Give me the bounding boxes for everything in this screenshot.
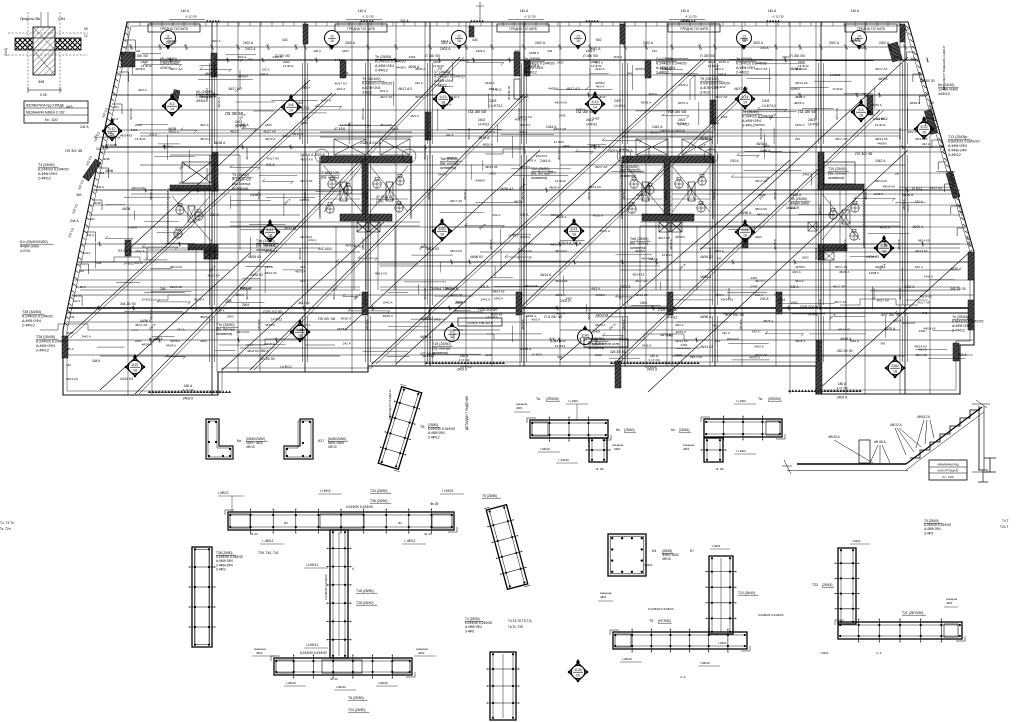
svg-text:242 А: 242 А [722,331,730,335]
svg-text:Л25 20/ 50: Л25 20/ 50 [263,309,283,314]
svg-text:46/14 КЗ: 46/14 КЗ [708,248,712,260]
svg-text:К:ВИЗ/20 б:ВИЗ/20: К:ВИЗ/20 б:ВИЗ/20 [952,320,983,324]
svg-text:48/26 А: 48/26 А [200,315,210,319]
svg-text:2403: 2403 [749,226,756,230]
svg-text:Т2п Т: Т2п Т [1000,525,1008,529]
svg-text:октивена): октивена) [531,176,547,180]
svg-text:2402 А: 2402 А [753,41,764,45]
svg-text:05: 05 [930,101,934,105]
svg-text:2403: 2403 [675,353,682,357]
svg-text:46/17 АЛ: 46/17 АЛ [263,129,275,133]
svg-text:І-4Ф/2: І-4Ф/2 [852,539,861,543]
svg-text:ЛЗ 30/ 45: ЛЗ 30/ 45 [855,151,873,156]
svg-text:2403: 2403 [265,123,272,127]
stair flight detail T8 (slanted) [375,384,456,472]
svg-text:4:2/19: 4:2/19 [20,249,30,253]
svg-text:46/3 А: 46/3 А [918,347,926,351]
svg-text:242 А: 242 А [66,347,74,351]
svg-text:46/3 А: 46/3 А [614,55,623,59]
svg-text:343: 343 [742,38,748,42]
svg-text:46/17 АЛ: 46/17 АЛ [917,301,929,305]
svg-text:343: 343 [910,57,916,61]
svg-text:14 Ф/12: 14 Ф/12 [555,339,566,343]
svg-text:46/3 А: 46/3 А [594,61,603,65]
svg-text:242 А: 242 А [265,265,273,269]
svg-text:443 3400: 443 3400 [318,247,332,251]
svg-text:Кп : 1/50: Кп : 1/50 [943,475,954,479]
svg-text:2403: 2403 [135,123,142,127]
svg-text:3-4Ф/1: 3-4Ф/1 [924,531,934,535]
svg-text:140 А: 140 А [768,9,777,13]
svg-text:.407 30/ 30: .407 30/ 30 [880,312,901,317]
beam size labels row 1 [225,109,820,129]
dimension tick row y47 [129,41,907,50]
svg-text:46/17 АЛ: 46/17 АЛ [300,179,312,183]
svg-text:44/58 К: 44/58 К [238,75,248,79]
svg-text:14 Ф/12: 14 Ф/12 [666,316,678,320]
svg-text:46/17 АЛ: 46/17 АЛ [690,355,702,359]
svg-text:І-4Ф/12: І-4Ф/12 [286,681,296,685]
beam size labels row 3 (30/45) [65,148,901,321]
svg-text:2403: 2403 [301,121,308,125]
svg-text:48/18 А: 48/18 А [669,238,673,250]
more vertical texts [129,88,902,300]
dimension texts above top edge [169,9,860,20]
svg-text:2406 А: 2406 А [760,149,771,153]
svg-text:4Ф/2: 4Ф/2 [683,447,690,451]
svg-text:Фк 28: Фк 28 [430,502,438,506]
svg-text:48/14 КЗ: 48/14 КЗ [520,249,532,253]
svg-text:46/17 АЛ: 46/17 АЛ [554,127,566,131]
svg-text:46/06 А: 46/06 А [902,193,914,197]
svg-text:І -4Ф/20: І -4Ф/20 [558,458,569,462]
svg-text:140 А: 140 А [520,9,529,13]
svg-text:44/58 К: 44/58 К [635,249,645,253]
svg-text:Л 30/ 50: Л 30/ 50 [425,53,441,58]
svg-text:(Вк. бетньа: (Вк. бетньа [216,328,235,332]
svg-text:44/58 К: 44/58 К [299,198,309,202]
svg-text:46/17 АЛ: 46/17 АЛ [335,81,347,85]
svg-text:4- 4-: 4- 4- [876,651,882,655]
svg-text:242 А: 242 А [302,85,310,89]
svg-text:48/26 А: 48/26 А [482,142,492,146]
svg-text:343: 343 [922,311,927,315]
svg-text:І +4Ф/2: І +4Ф/2 [320,489,331,493]
svg-text:Т:1823+/20: Т:1823+/20 [321,171,339,175]
svg-text:К4: К4 [652,549,656,553]
vertical beam detail bottom center [487,652,520,720]
svg-text:12450+0400: 12450+0400 [938,88,958,92]
svg-text:2403 А: 2403 А [440,47,451,51]
svg-text:2442 А: 2442 А [795,123,805,127]
svg-text:ГРЕДНА ТЛВ КАТВ: ГРЕДНА ТЛВ КАТВ [593,342,620,346]
svg-text:ЛЗ 30/ 50: ЛЗ 30/ 50 [118,249,132,253]
svg-text:Т21 (25/50): Т21 (25/50) [620,165,639,169]
tee beam detail K29 [671,397,785,471]
texts on diagonals [148,113,887,341]
svg-text:44/58 К: 44/58 К [790,87,800,91]
svg-text:ЛЗ 30/ 50: ЛЗ 30/ 50 [668,109,687,114]
svg-text:2403: 2403 [802,256,809,260]
svg-text:46/3 А: 46/3 А [415,95,424,99]
svg-text:14 Ф/12: 14 Ф/12 [334,58,345,62]
svg-text:6:24Ф/20 6:24Ф/20: 6:24Ф/20 6:24Ф/20 [300,651,327,655]
svg-text:2402 А: 2402 А [345,41,356,45]
L beam assembly T22/T21 (right) [644,539,965,655]
svg-text:46/38: 46/38 [122,207,130,211]
svg-text:Т16 (25/50): Т16 (25/50) [356,589,374,593]
svg-text:2442 А: 2442 А [481,298,491,302]
svg-text:48/18 А: 48/18 А [664,188,668,200]
svg-text:Т9: Т9 [649,619,653,623]
svg-text:44 44: 44 44 [250,532,258,536]
svg-text:44/54 КЗ: 44/54 КЗ [250,273,263,277]
diamond marker bottom-right block [885,355,906,378]
svg-text:К7: К7 [690,549,694,553]
svg-text:Т13 (25/05р: Т13 (25/05р [948,135,967,139]
svg-text:48/26 А: 48/26 А [341,317,351,321]
svg-text:48/17 АЛ: 48/17 АЛ [566,87,580,91]
svg-text:4Ф/14 КЗ: 4Ф/14 КЗ [200,95,213,99]
svg-text:5:24: 5:24 [742,228,749,232]
twin diagonal lines [70,57,884,394]
svg-text:14 Ф/12: 14 Ф/12 [586,123,598,127]
svg-text:46/70 А: 46/70 А [453,328,463,332]
svg-text:48/14 КЗ: 48/14 КЗ [375,272,387,276]
svg-text:46/3 А: 46/3 А [894,55,903,59]
svg-text:(25/45): (25/45) [679,428,689,432]
svg-text:48/14 КЗ: 48/14 КЗ [170,265,182,269]
svg-text:14 Ф/12: 14 Ф/12 [832,87,843,91]
svg-text:А:4Ф8+2Ф4: А:4Ф8+2Ф4 [952,324,971,328]
svg-text:344 А: 344 А [97,185,105,189]
svg-text:343: 343 [880,342,885,346]
svg-text:46/17 АЛ: 46/17 АЛ [240,286,252,290]
svg-text:2403: 2403 [593,329,600,333]
svg-text:46/14 КЗ: 46/14 КЗ [205,168,209,180]
svg-text:А:4Ф8+2Ф4: А:4Ф8+2Ф4 [22,319,41,323]
boxed labels lower plan [458,318,628,347]
svg-text:3-4Ф/1: 3-4Ф/1 [465,629,475,633]
svg-text:46/14 КЗ: 46/14 КЗ [129,108,133,120]
svg-text:4Ф/14 КЗ: 4Ф/14 КЗ [838,327,851,331]
svg-text:2-4Ф/12: 2-4Ф/12 [38,177,51,181]
svg-text:2403: 2403 [750,285,757,289]
svg-text:44/58 К: 44/58 К [675,235,685,239]
svg-text:Т26 (25/40): Т26 (25/40) [356,601,374,605]
svg-text:А 12 /30: А 12 /30 [685,15,697,19]
svg-text:3-4Ф/12: 3-4Ф/12 [742,124,755,128]
svg-text:46/17 АЛ: 46/17 АЛ [755,179,767,183]
svg-text:А:4Ф8+2Ф4: А:4Ф8+2Ф4 [434,79,453,83]
svg-text:4Ф/14 КЗ: 4Ф/14 КЗ [882,184,895,188]
svg-text:Т4 (25/50): Т4 (25/50) [38,163,55,167]
stair core U3 (center-right) walls and fixtures [617,139,718,290]
svg-text:46/70 А: 46/70 А [265,137,275,141]
svg-text:І +4Ф22: І +4Ф22 [442,489,454,493]
svg-text:46/50 А: 46/50 А [420,335,432,339]
svg-text:344 А: 344 А [96,147,105,151]
svg-text:5:13: 5:13 [592,100,599,104]
svg-text:44/54 КЗ: 44/54 КЗ [248,255,261,259]
small bracket symbol [978,458,996,482]
svg-text:140 А: 140 А [760,46,769,50]
svg-text:4Ф/14 КЗ: 4Ф/14 КЗ [422,354,434,358]
svg-text:4Ф/14 КЗ: 4Ф/14 КЗ [555,279,568,283]
svg-text:242: 242 [90,217,95,221]
svg-text:242 А: 242 А [446,133,454,137]
svg-text:46/3 А: 46/3 А [591,287,600,291]
big tee assembly web beam T16 [304,530,377,658]
svg-text:345 35/ 30: 345 35/ 30 [950,287,966,291]
svg-text:46/28 А: 46/28 А [214,141,226,145]
svg-text:4Ф/14 КЗ: 4Ф/14 КЗ [588,185,601,189]
tick pairs on beam lines [97,58,929,343]
svg-text:І-4Ф/12: І-4Ф/12 [540,447,550,451]
svg-text:2-4Ф/12: 2-4Ф/12 [375,69,388,73]
big tee assembly bottom flange beam T6/T24 [252,647,436,712]
svg-text:443: 443 [282,38,288,42]
svg-text:48/26 А: 48/26 А [168,130,178,134]
svg-text:46/3 А: 46/3 А [715,67,724,71]
svg-text:ГРЕДНА ТЈЛ КАТ8: ГРЕДНА ТЈЛ КАТ8 [509,27,537,31]
svg-text:4 17 /30: 4 17 /30 [837,386,848,390]
svg-text:Л 30/ 50: Л 30/ 50 [700,53,716,58]
svg-text:14: 14 [170,107,174,111]
horizontal beam segment pairs [80,133,960,290]
svg-text:Т5 (25/50): Т5 (25/50) [482,494,497,498]
svg-text:46/70 А: 46/70 А [520,165,530,169]
svg-text:І +4Ф/2: І +4Ф/2 [568,399,578,403]
svg-text:К27: К27 [318,439,324,443]
svg-text:Ф480+3400: Ф480+3400 [790,202,809,206]
svg-text:І-4Ф/2: І-4Ф/2 [718,641,727,645]
svg-text:КОНСТРУКЦИЈЕ: КОНСТРУКЦИЈЕ [938,469,959,473]
svg-text:44/58 К: 44/58 К [520,235,530,239]
scattered rebar annotations [66,19,967,381]
svg-text:2403: 2403 [755,235,762,239]
svg-text:46/14 КЗ: 46/14 КЗ [898,288,902,300]
svg-text:(Вк. бетньа: (Вк. бетньа [531,172,550,176]
svg-text:ЛЗ 30/ 50: ЛЗ 30/ 50 [468,109,487,114]
svg-text:140 А: 140 А [441,39,449,43]
svg-text:Л 30/ 50: Л 30/ 50 [583,53,599,58]
svg-text:46/70 А: 46/70 А [200,137,210,141]
svg-text:343 А: 343 А [400,19,409,23]
svg-text:48/14 КЗ: 48/14 КЗ [450,249,462,253]
svg-text:46/3 А: 46/3 А [893,319,901,323]
svg-text:2403: 2403 [782,55,789,59]
svg-text:46/00 А: 46/00 А [912,225,924,229]
svg-text:44/58 К: 44/58 К [523,241,533,245]
svg-text:443: 443 [652,49,657,53]
svg-text:46/17 АЛ: 46/17 АЛ [877,298,889,302]
svg-text:48/14 КЗ: 48/14 КЗ [755,207,767,211]
svg-text:46/17 АЛ: 46/17 АЛ [930,186,942,190]
svg-text:Та: Та [536,397,540,401]
svg-text:Кп (04/40): Кп (04/40) [938,83,954,87]
svg-text:46/14 КЗ: 46/14 КЗ [700,345,713,349]
svg-text:2-4Ф/12: 2-4Ф/12 [36,349,49,353]
svg-text:2442 А: 2442 А [924,274,933,278]
left slant edge steps [72,40,135,306]
svg-text:48/26 А: 48/26 А [549,185,559,189]
svg-text:1135: 1135 [574,668,582,672]
svg-text:2-4Ф/12: 2-4Ф/12 [736,71,749,75]
svg-text:5:13: 5:13 [440,95,447,99]
svg-text:(2П5/50): (2П5/50) [768,397,781,401]
svg-text:46/17 АЛ: 46/17 АЛ [595,165,607,169]
core room diagonals [172,166,860,240]
svg-text:14 Ф/12: 14 Ф/12 [271,318,283,322]
svg-text:Т21 (25ПЗ/50): Т21 (25ПЗ/50) [902,611,923,615]
svg-text:2403: 2403 [762,99,770,103]
svg-text:44/58 К: 44/58 К [595,293,605,297]
svg-text:343: 343 [79,269,84,273]
svg-text:Т4 Т: Т4 Т [1002,519,1009,523]
svg-text:48/14 КЗ: 48/14 КЗ [247,349,259,353]
svg-text:44Ф/10: 44Ф/10 [938,92,950,96]
svg-text:44/58 К: 44/58 К [755,123,765,127]
svg-text:4Ф/14 КЗ: 4Ф/14 КЗ [795,81,808,85]
svg-text:Т28 (3А/50): Т28 (3А/50) [22,310,41,314]
svg-text:4Ф/14 КЗ: 4Ф/14 КЗ [485,165,498,169]
svg-text:4Ф/2: 4Ф/2 [946,601,953,605]
svg-text:44/58 К: 44/58 К [166,344,176,348]
svg-text:48/26 А: 48/26 А [142,343,152,347]
svg-text:Кп: Кп [671,428,675,432]
svg-text:343: 343 [523,70,528,74]
svg-text:14 Ф/12: 14 Ф/12 [808,313,820,317]
svg-text:І-4Ф/12: І-4Ф/12 [378,681,388,685]
svg-text:2404: 2404 [640,301,647,305]
svg-text:А:4Ф8+2Ф4: А:4Ф8+2Ф4 [36,344,55,348]
svg-text:243 А: 243 А [760,297,769,301]
svg-text:443: 443 [135,49,140,53]
svg-text:48/18 А: 48/18 А [463,188,467,200]
svg-text:2402 А: 2402 А [535,41,546,45]
svg-text:242 А: 242 А [493,213,501,217]
svg-text:2403: 2403 [557,61,564,65]
svg-text:46/17 АЛ: 46/17 АЛ [398,87,412,91]
svg-text:А 12 /30: А 12 /30 [772,15,784,19]
svg-text:14 Ф7/12: 14 Ф7/12 [489,104,503,108]
svg-text:4Ф/14 КЗ: 4Ф/14 КЗ [915,137,928,141]
svg-text:46/3 А: 46/3 А [715,249,724,253]
svg-text:46/3 А: 46/3 А [520,95,529,99]
svg-text:А:4ПВ+204: А:4ПВ+204 [362,86,380,90]
svg-text:46/14 КЗ: 46/14 КЗ [814,248,818,260]
small dark bar near x469 top [469,26,474,37]
svg-text:46/14 КЗ: 46/14 КЗ [66,377,78,381]
svg-text:46/14 А: 46/14 А [540,273,552,277]
svg-text:46/14 КЗ: 46/14 КЗ [618,288,622,300]
svg-text:46/3 А: 46/3 А [596,85,604,89]
svg-text:А:4Ф8+2Ф4: А:4Ф8+2Ф4 [736,66,755,70]
svg-text:4Ф/14 КЗ: 4Ф/14 КЗ [120,133,132,137]
svg-text:343: 343 [715,339,720,343]
svg-text:46/70 А: 46/70 А [875,265,885,269]
svg-text:344: 344 [160,287,166,291]
svg-text:Кп: Кп [237,439,241,443]
svg-text:18: 18 [893,369,897,373]
svg-text:46/3 А: 46/3 А [532,318,540,322]
svg-text:46/70 А: 46/70 А [750,356,760,360]
svg-text:46/14 КЗ: 46/14 КЗ [298,248,302,260]
svg-text:46/3 А: 46/3 А [337,87,346,91]
svg-text:14 Ф/12: 14 Ф/12 [875,123,886,127]
svg-text:44/14 КЗ: 44/14 КЗ [120,377,133,381]
stair section elevation detail [782,400,990,480]
svg-text:2402 А: 2402 А [829,41,840,45]
svg-text:ГРЕДНА ТЈЛ КАТ8: ГРЕДНА ТЈЛ КАТ8 [347,27,375,31]
svg-text:МЕЗААНИН АЈВЕН С-192: МЕЗААНИН АЈВЕН С-192 [26,111,65,115]
svg-text:2402 К: 2402 К [837,396,847,400]
svg-text:(Вк. котньа: (Вк. котньа [828,172,846,176]
svg-text:2403: 2403 [478,118,485,122]
svg-text:2403: 2403 [409,55,416,59]
short dimension hook lines [94,57,965,359]
svg-text:44/58 К: 44/58 К [795,265,805,269]
svg-text:Та,Тк ,Т2б: Та,Тк ,Т2б [508,625,523,629]
svg-text:14 Ф/12: 14 Ф/12 [478,123,490,127]
svg-text:14 Ф/12: 14 Ф/12 [715,85,726,89]
svg-text:2442 А: 2442 А [383,301,393,305]
svg-text:2444 А: 2444 А [540,159,551,163]
svg-text:46/14 КЗ: 46/14 КЗ [245,148,249,160]
svg-text:2442 А: 2442 А [875,159,886,163]
svg-text:46/56 КЗ: 46/56 КЗ [470,255,483,259]
svg-text:344: 344 [108,131,113,135]
svg-text:2403: 2403 [342,49,349,53]
svg-text:343: 343 [712,324,717,328]
svg-text:14 Ф7/12: 14 Ф7/12 [762,104,776,108]
svg-text:13: 13 [576,34,580,38]
vertical beam double lines [210,63,908,362]
svg-text:4 17 /30: 4 17 /30 [459,358,470,362]
svg-text:48/14 КЗ: 48/14 КЗ [555,249,567,253]
svg-text:44/58 К: 44/58 К [127,226,137,230]
svg-text:46/17 АЛ: 46/17 АЛ [450,199,462,203]
svg-text:46/70 А: 46/70 А [295,269,305,273]
svg-text:363: 363 [99,171,104,175]
rotated detail captions [465,45,946,430]
svg-text:48/26 А: 48/26 А [910,101,920,105]
svg-text:6:24Ф/20 6:24Ф/20: 6:24Ф/20 6:24Ф/20 [648,607,674,611]
annotation scatter 3 [131,58,930,360]
svg-text:46/3 А: 46/3 А [238,55,247,59]
svg-text:4Ф/14 КЗ: 4Ф/14 КЗ [284,226,296,230]
svg-text:48/14 КЗ: 48/14 КЗ [875,179,887,183]
svg-text:А:4Ф8+2Ф4: А:4Ф8+2Ф4 [38,172,57,176]
svg-text:48/26 А: 48/26 А [641,100,651,104]
svg-text:18: 18 [133,368,137,372]
svg-text:45/56 А: 45/56 А [636,193,648,197]
svg-text:2442 А: 2442 А [803,172,813,176]
svg-text:46/17 АЛ: 46/17 АЛ [300,158,312,162]
svg-text:46/17 АЛ: 46/17 АЛ [170,67,182,71]
svg-text:46/70 А: 46/70 А [678,101,688,105]
annotation scatter 2 [135,67,928,357]
svg-text:46/17 АЛ: 46/17 АЛ [658,236,670,240]
svg-text:48/56 А: 48/56 А [740,211,752,215]
svg-text:16: 16 [457,39,461,43]
svg-text:2403: 2403 [489,99,497,103]
svg-text:К:24Ф/20 б:24Ф/20: К:24Ф/20 б:24Ф/20 [656,62,687,66]
svg-text:46/3 А: 46/3 А [527,159,536,163]
svg-text:2402 А: 2402 А [211,39,221,43]
svg-text:343: 343 [437,67,442,71]
